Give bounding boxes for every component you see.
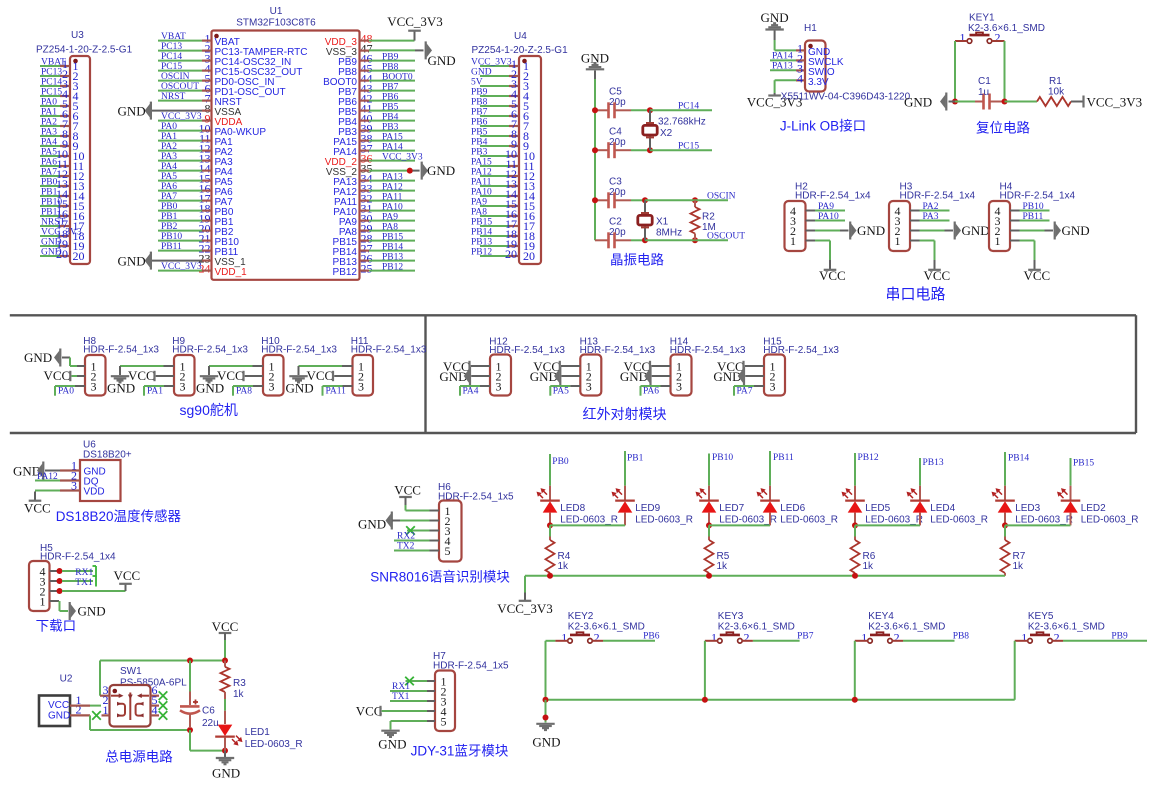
wire PA9 [815,202,845,212]
wire U4 pin 3 net 5V [471,77,529,93]
U1 pin 46 PB9 [338,52,415,68]
svg-text:VCC_3V3: VCC_3V3 [382,152,423,162]
svg-text:3: 3 [91,379,97,393]
svg-text:GND: GND [358,516,386,531]
svg-text:VCC_3V3: VCC_3V3 [1087,94,1143,109]
svg-text:20p: 20p [609,137,626,148]
LED LED5 [842,486,924,526]
svg-text:RX1: RX1 [392,682,410,692]
svg-text:GND: GND [904,94,932,109]
U1 pin 27 PB14 [333,242,415,258]
power VCC at H3 pin 1 [920,241,951,284]
connector H2 [785,182,872,252]
svg-text:PB11: PB11 [161,242,182,252]
wire U4 pin 4 net PB9 [471,87,529,103]
connector U2 power input [39,673,82,726]
svg-text:LED2: LED2 [1081,503,1106,514]
svg-text:BOOT0: BOOT0 [382,72,413,82]
svg-text:PB13: PB13 [923,458,944,468]
ground at reset rail [904,93,946,111]
svg-text:2: 2 [744,630,750,644]
svg-text:GND: GND [48,711,70,722]
svg-text:PA0: PA0 [58,387,74,397]
U1 pin 40 PB4 [338,112,415,128]
U1 pin 45 PB8 [338,62,415,78]
U1 pin 23 VSS_1 [151,252,246,268]
svg-text:2: 2 [995,31,1001,45]
svg-text:LED6: LED6 [780,503,805,514]
svg-text:PA4: PA4 [463,387,479,397]
svg-text:4: 4 [152,703,158,717]
svg-text:C6: C6 [202,706,215,717]
pushbutton KEY5 [1021,611,1105,644]
power VCC at H11 pin 2 [307,368,353,383]
svg-text:LED-0603_R: LED-0603_R [865,514,923,525]
svg-text:20p: 20p [609,187,626,198]
connector H9 [172,336,248,396]
svg-text:X5511WV-04-C396D43-1220: X5511WV-04-C396D43-1220 [781,91,911,102]
svg-text:20p: 20p [609,97,626,108]
wire U3 pin 1 net VBAT [40,57,79,73]
connector U3 [36,30,133,264]
wire U3 pin 11 net PA6 [40,157,84,173]
svg-text:PA15: PA15 [382,132,403,142]
no-connect H6 pin 3 [406,526,429,535]
svg-text:PB0: PB0 [552,457,569,467]
wire U4 pin 8 net PB5 [471,127,529,143]
svg-text:OSCOUT: OSCOUT [161,82,199,92]
node PA1 at H9 pin 3 [144,386,174,397]
IC U1 STM32F103C8T6 [212,6,360,280]
node PB0 [550,454,569,486]
title DS18B20 [56,508,182,524]
wire PA14 [770,52,796,62]
power VCC at H2 pin 1 [815,241,846,284]
connector H6 [430,482,515,562]
svg-text:PA12: PA12 [382,182,403,192]
svg-text:PA11: PA11 [326,387,347,397]
svg-text:U3: U3 [71,30,84,41]
U1 pin 7 NRST [158,92,242,108]
svg-text:PC14: PC14 [161,52,182,62]
section divider right vertical [1135,315,1137,433]
svg-text:PA0: PA0 [161,122,177,132]
connector H3 [889,182,976,252]
ground flag at U6 pin 1 [13,462,60,480]
svg-text:VDD_1: VDD_1 [215,267,248,278]
title crystal circuit [610,253,664,268]
svg-text:PB4: PB4 [382,112,399,122]
node TX1 [390,692,427,702]
svg-text:VCC: VCC [48,700,69,711]
svg-text:3.3V: 3.3V [808,77,829,88]
U1 pin 21 PB10 [158,232,239,248]
svg-text:PB5: PB5 [471,128,488,138]
power VCC at H4 pin 1 [1020,241,1051,284]
U1 pin 10 PA0-WKUP [158,122,266,138]
svg-text:PB3: PB3 [382,122,399,132]
node PA7 at H15 pin 3 [734,386,764,397]
U1 pin 36 VDD_2 [325,152,423,168]
svg-text:PB15: PB15 [1073,459,1094,469]
resistor R6 1k [851,525,876,575]
svg-text:H1: H1 [804,23,817,34]
svg-text:OSCIN: OSCIN [707,192,736,202]
svg-text:LED-0603_R: LED-0603_R [1015,514,1073,525]
connector H5 [29,543,116,611]
svg-text:VCC: VCC [44,368,71,383]
svg-text:PA8: PA8 [382,222,398,232]
title J-Link OB [780,118,866,134]
connector H10 [261,336,337,396]
U1 pin 9 VDDA [158,112,243,128]
svg-text:C5: C5 [609,87,622,98]
pushbutton KEY1 [960,13,1046,45]
U1 pin 38 PA15 [333,132,415,148]
no-connect H7 pin 1 [405,677,427,686]
svg-text:PA11: PA11 [471,178,492,188]
svg-text:LED9: LED9 [635,503,660,514]
svg-text:PA15: PA15 [471,158,492,168]
svg-text:LED-0603_R: LED-0603_R [719,514,777,525]
svg-text:GND: GND [713,369,741,384]
capacitor C4 20p [595,126,650,158]
svg-text:2: 2 [1054,630,1060,644]
ground at H13 pin 2 [530,367,581,385]
svg-text:VCC: VCC [356,704,383,719]
svg-text:3: 3 [770,379,776,393]
U1 pin 12 PA2 [158,142,233,158]
ground flag at U1 pin 23 [118,252,151,270]
U1 pin 3 PC14-OSC32_IN [158,52,291,68]
svg-text:PB12: PB12 [333,267,358,278]
svg-text:K2-3.6×6.1_SMD: K2-3.6×6.1_SMD [718,621,795,632]
power VCC at main supply [212,619,239,661]
svg-text:PB10: PB10 [712,453,733,463]
svg-text:5: 5 [441,714,447,728]
svg-text:PA10: PA10 [382,202,403,212]
ground at H10 pin 1 [196,366,263,395]
capacitor C6 22u [180,661,228,754]
svg-text:GND: GND [427,163,455,178]
svg-text:LED8: LED8 [560,503,585,514]
svg-text:1: 1 [790,234,796,248]
node PA11 at H11 pin 3 [323,386,353,397]
U1 pin 33 PA12 [333,182,415,198]
wire KEY1 left leg [955,41,967,102]
capacitor C1 1u [949,76,1008,110]
svg-text:1k: 1k [1013,561,1025,572]
wire U3 pin 2 net PC13 [40,67,79,83]
svg-text:3: 3 [180,379,186,393]
svg-text:VCC: VCC [394,482,421,497]
U1 pin 5 PD0-OSC_IN [158,72,275,88]
svg-text:串口电路: 串口电路 [886,286,946,303]
svg-text:PC14: PC14 [678,102,699,112]
svg-text:20: 20 [523,249,535,263]
U1 pin 29 PA8 [339,222,415,238]
svg-text:U4: U4 [514,31,527,42]
svg-text:U2: U2 [60,673,73,684]
ground at H6 pin 2 [358,512,430,532]
svg-text:10k: 10k [1048,87,1065,98]
svg-text:VDD: VDD [84,486,105,497]
svg-text:K2-3.6×6.1_SMD: K2-3.6×6.1_SMD [568,621,645,632]
ground at H1 [761,10,796,50]
svg-text:1k: 1k [558,561,570,572]
svg-text:PA12: PA12 [471,168,492,178]
wire U4 pin 15 net PA9 [471,197,535,213]
svg-text:PB7: PB7 [797,632,814,642]
title reset circuit [976,120,1030,136]
resistor R5 1k [705,525,730,575]
svg-text:25: 25 [361,262,373,276]
node PB14 [1005,452,1029,486]
wire PA13 [770,62,796,72]
svg-text:OSCOUT: OSCOUT [707,232,745,242]
svg-text:PA10: PA10 [818,212,839,222]
node PA5 at H13 pin 3 [550,386,580,397]
svg-text:TX1: TX1 [75,578,93,588]
node PB11 [770,451,794,486]
ground at H9 pin 1 [107,366,174,395]
svg-text:LED-0603_R: LED-0603_R [560,514,618,525]
U1 pin 18 PB0 [158,202,234,218]
svg-text:STM32F103C8T6: STM32F103C8T6 [236,18,316,29]
node PA8 at H10 pin 3 [233,386,263,397]
wire LED pair join [852,522,920,528]
svg-text:PA9: PA9 [818,202,834,212]
U1 pin 28 PB15 [333,232,415,248]
svg-text:1k: 1k [717,561,729,572]
svg-text:DS18B20+: DS18B20+ [83,449,132,460]
svg-text:PA7: PA7 [41,168,57,178]
connector U4 [472,31,569,264]
crystal X2 32.768kHz [643,110,706,150]
svg-text:PB9: PB9 [471,88,488,98]
svg-text:总电源电路: 总电源电路 [105,750,173,765]
svg-text:PB15: PB15 [471,218,492,228]
svg-text:PB12: PB12 [858,453,879,463]
ground at H15 pin 2 [713,367,764,385]
title SNR8016 [370,568,510,584]
wire LED pair join [706,522,770,528]
wire U4 pin 20 net PB12 [471,247,535,263]
U1 pin 15 PA5 [158,172,233,188]
wire U2 pin 1 to SW1 [70,704,101,706]
wire U4 pin 19 net PB13 [471,237,535,253]
no-connect marks at SW1 [92,691,167,719]
svg-text:PC14: PC14 [41,78,62,88]
svg-text:LED-0603_R: LED-0603_R [780,514,838,525]
svg-text:复位电路: 复位电路 [976,120,1030,136]
svg-text:1: 1 [103,703,109,717]
svg-text:PA3: PA3 [161,152,177,162]
title JDY-31 [411,744,509,759]
U1 pin 32 PA11 [334,192,415,208]
svg-text:1u: 1u [978,87,989,98]
ground at H12 pin 2 [439,367,490,385]
svg-text:4: 4 [797,71,803,85]
svg-text:PB11: PB11 [773,453,794,463]
resistor R3 1k [221,661,247,711]
svg-text:LED3: LED3 [1015,503,1040,514]
svg-text:GND: GND [857,223,885,238]
wire U3 pin 4 net PC15 [40,87,79,103]
svg-text:PA9: PA9 [471,198,487,208]
wire U4 pin 6 net PB7 [471,107,529,123]
ground at H3 pin 2 [920,222,990,240]
U1 pin 42 PB6 [338,92,415,108]
ground of crystal circuit [581,51,609,80]
U1 pin 11 PA1 [158,132,233,148]
ground at H7 pin 5 [378,721,427,751]
svg-text:PB6: PB6 [471,118,488,128]
svg-text:1k: 1k [233,689,245,700]
svg-text:3: 3 [71,479,77,493]
svg-text:红外对射模块: 红外对射模块 [583,406,667,422]
svg-text:GND: GND [620,369,648,384]
svg-text:22u: 22u [202,718,219,729]
svg-text:J-Link OB接口: J-Link OB接口 [780,118,866,134]
wire KEY3 left leg [705,641,718,700]
node PB7 at KEY3 [742,632,814,642]
svg-text:LED-0603_R: LED-0603_R [245,739,303,750]
crystal X1 8MHz [638,200,682,240]
capacitor C5 20p [595,87,650,119]
svg-text:GND: GND [118,103,146,118]
U1 pin 37 PA14 [333,142,415,158]
svg-text:PB6: PB6 [382,92,399,102]
connector H8 [83,336,159,396]
svg-text:X2: X2 [660,128,673,139]
node PB13 [920,458,944,486]
svg-text:PA10: PA10 [471,188,492,198]
connector H7 [427,651,509,731]
node PB6 at KEY2 [592,632,659,642]
part number X5511WV [781,91,911,102]
U1 pin 25 PB12 [333,262,415,278]
U1 pin 39 PB3 [338,122,415,138]
svg-text:X1: X1 [656,217,669,228]
node PB8 at KEY4 [892,632,969,642]
svg-text:3: 3 [586,379,592,393]
wire U3 pin 19 net GND [40,237,85,253]
svg-text:C3: C3 [609,177,622,188]
ground flag at U1 pin 8 [118,102,151,120]
svg-text:PB14: PB14 [471,228,492,238]
power VCC at H15 pin 1 [717,359,764,374]
svg-text:VCC_3V3: VCC_3V3 [161,112,202,122]
svg-text:VCC: VCC [212,619,239,634]
svg-text:GND: GND [530,369,558,384]
power VCC_3V3 flag [1084,94,1143,109]
svg-text:GND: GND [1062,223,1090,238]
svg-text:GND: GND [78,604,106,619]
power VCC at H7 pin 4 [356,704,427,719]
svg-text:PA1: PA1 [41,108,57,118]
power VCC at H8 pin 2 [44,368,86,383]
LED LED4 [907,486,989,526]
svg-text:1M: 1M [702,222,716,233]
svg-text:PA11: PA11 [382,192,403,202]
wire U4 pin 16 net PA8 [471,207,535,223]
svg-text:PB13: PB13 [382,252,403,262]
resistor R7 1k [1001,525,1026,575]
svg-text:1: 1 [711,630,717,644]
svg-text:1: 1 [1021,630,1027,644]
title IR module [583,406,667,422]
ground at key rail [532,700,560,750]
wire PB11 [1020,212,1050,222]
LED LED6 [757,486,839,526]
svg-text:PB9: PB9 [1111,632,1128,642]
pushbutton KEY3 [711,611,795,644]
svg-text:PB10: PB10 [1023,202,1044,212]
svg-text:PB1: PB1 [627,454,644,464]
svg-text:VBAT: VBAT [161,32,186,42]
wire U4 pin 13 net PA11 [471,177,535,193]
svg-text:下载口: 下载口 [36,619,77,634]
svg-text:KEY1: KEY1 [969,13,995,24]
node PB1 [625,451,644,486]
svg-text:PA4: PA4 [161,162,177,172]
wire U2 pin 2 to ground rail [70,715,193,733]
node PB12 [855,453,879,486]
svg-text:PB2: PB2 [161,222,178,232]
node RX1 at H5 pin 4 [57,566,97,578]
svg-text:GND: GND [439,369,467,384]
svg-text:PA1: PA1 [147,387,163,397]
wire node OSCIN [592,192,736,204]
title serial circuit [886,286,946,303]
svg-text:PB13: PB13 [471,238,492,248]
section divider bottom [10,432,1136,434]
U1 pin 8 VSSA [151,102,242,118]
ground at H4 pin 2 [1020,222,1090,240]
LED LED8 [537,486,619,526]
section divider middle vertical [424,315,426,433]
wire U4 pin 10 net PB3 [471,147,535,163]
svg-text:PB8: PB8 [471,98,488,108]
wire PA3 [920,212,950,222]
svg-text:PA9: PA9 [382,212,398,222]
svg-text:PA13: PA13 [382,172,403,182]
svg-text:PA7: PA7 [737,387,753,397]
wire main power rail [100,658,228,696]
svg-text:PA8: PA8 [236,387,252,397]
node TX1 at H5 pin 3 [57,576,97,588]
connector H12 [489,337,565,396]
svg-text:sg90舵机: sg90舵机 [180,402,238,418]
power VCC at H12 pin 1 [443,359,490,374]
svg-text:20: 20 [56,247,68,261]
U1 pin 30 PA9 [339,212,415,228]
svg-text:5V: 5V [471,78,483,88]
wire U3 pin 16 net PB11 [40,207,85,223]
wire U3 pin 9 net PA4 [40,137,79,153]
IC U6 DS18B20+ [60,440,132,502]
LED1 [215,711,302,751]
wire U3 pin 13 net PB0 [40,177,85,193]
svg-text:3: 3 [496,379,502,393]
svg-text:LED1: LED1 [245,727,270,738]
node PB10 [709,453,733,486]
svg-text:PB1: PB1 [161,212,178,222]
connector H15 [763,337,839,396]
wire LED pair join [547,522,625,528]
svg-text:K2-3.6×6.1_SMD: K2-3.6×6.1_SMD [868,621,945,632]
